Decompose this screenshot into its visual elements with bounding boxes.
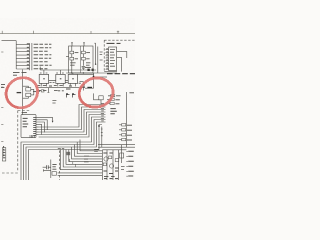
small rect comp c xyxy=(115,159,119,162)
block inner vertical b xyxy=(112,150,114,180)
heavy dashed bus bottom-right xyxy=(107,73,135,75)
cross wires y144 xyxy=(98,144,135,146)
RE label xyxy=(127,134,132,136)
RA body xyxy=(110,98,114,100)
bus wire 4 xyxy=(39,112,106,135)
module A wire chain right xyxy=(82,46,84,66)
capacitor C12 wires xyxy=(43,166,51,168)
resistor R4 xyxy=(82,57,86,60)
module A wire chain left xyxy=(71,46,73,73)
gate U3 symbol mark xyxy=(60,78,62,80)
stub below bottom wire xyxy=(47,88,49,93)
junction dot x95.5 bottom xyxy=(95,63,96,64)
gate U2 input stub xyxy=(43,70,45,74)
annotation red circle right xyxy=(79,78,113,107)
scan noise overlay xyxy=(0,0,1,1)
U6 pin wire row2 xyxy=(36,120,47,130)
thin wire y77 xyxy=(94,76,108,78)
bus wire 8 xyxy=(26,122,106,180)
capacitor C29 plates xyxy=(82,85,85,87)
R1 label xyxy=(75,52,79,54)
wire U6 top to crystal xyxy=(22,109,24,115)
IC U6 box xyxy=(21,115,36,138)
enclosure bottom wire xyxy=(104,71,117,73)
wire vertical x101.8 lower xyxy=(101,127,103,148)
U5 right wire upper xyxy=(117,52,127,58)
block inner vertical c xyxy=(121,145,123,163)
U6 right pin ticks xyxy=(33,118,36,136)
wire top feed to bus xyxy=(2,40,17,42)
U5 right wire lower xyxy=(117,58,122,72)
RB body xyxy=(110,102,114,104)
wire U2-U3 link xyxy=(49,80,56,82)
dashed enclosure bottom-left bottom xyxy=(2,172,18,174)
J1 pin number marks xyxy=(27,44,29,68)
bottom-right block outline xyxy=(102,150,126,180)
RE body xyxy=(122,134,126,136)
block mid text e xyxy=(121,167,125,170)
J1 net label row5 xyxy=(34,57,52,59)
U6 pin wire row3 xyxy=(36,122,44,132)
relay K1 box xyxy=(66,152,70,155)
bottom-left small connector J3 xyxy=(2,148,5,161)
gate U3 labels below xyxy=(54,86,63,91)
gate row bottom wire y87.5 xyxy=(36,87,85,89)
dashed enclosure bottom-left top xyxy=(18,110,30,112)
net flag box xyxy=(41,90,44,92)
block inner vertical a xyxy=(106,150,108,180)
gate U4 output stubs xyxy=(70,83,75,86)
wire from box down xyxy=(100,100,102,105)
fan bottom wire 10 xyxy=(58,175,102,177)
J1 net label row6 xyxy=(34,61,48,63)
right label ticks xyxy=(126,152,127,177)
U6 pin wire row8 xyxy=(36,134,39,136)
crystal link wires xyxy=(23,86,34,98)
border tick x118 xyxy=(117,31,119,34)
J3 pin rows xyxy=(3,150,5,158)
junction dot TP a xyxy=(87,69,89,71)
U6 internal text rows xyxy=(23,118,29,126)
tick marks on x101.8 xyxy=(101,129,103,136)
J1 net label row2 xyxy=(34,47,52,49)
hook dots xyxy=(66,93,74,95)
bus wire 1 xyxy=(39,105,106,128)
gate U2 labels below xyxy=(37,86,46,91)
U6 pin wire row6 xyxy=(36,129,39,131)
small junction ticks on fan xyxy=(70,159,76,167)
V2 fan wire 2 xyxy=(77,142,102,154)
small box node C xyxy=(99,96,103,100)
dashed enclosure top-right top edge xyxy=(104,39,135,41)
text below bottom wire xyxy=(52,101,56,103)
RB label xyxy=(115,103,119,105)
label right of crystal xyxy=(33,91,36,93)
R4 label xyxy=(86,58,89,60)
resistor row RF xyxy=(119,139,122,141)
wire gate feed riser xyxy=(39,67,41,71)
resistor R1 xyxy=(70,51,74,54)
gate U4 box xyxy=(68,74,77,83)
sheet border top line xyxy=(0,33,135,35)
module A inner divider xyxy=(80,46,82,73)
label above TP xyxy=(85,66,91,68)
border tick x91 xyxy=(90,31,92,34)
wire U3-U4 link xyxy=(65,80,68,82)
small rect comp b xyxy=(109,156,112,159)
vertical text strip left margin xyxy=(3,146,5,156)
ground symbol in module A xyxy=(82,67,86,70)
J1 net label row4 xyxy=(34,54,52,56)
V2 fan wire 8 xyxy=(60,150,102,170)
label C30 xyxy=(87,87,92,89)
junction dot node B xyxy=(93,76,95,78)
U6 pin wire row1 xyxy=(36,118,53,121)
resistor row RC xyxy=(119,124,122,126)
block inner vertical d xyxy=(118,150,120,180)
block bottom dark marks xyxy=(104,178,118,180)
dashed enclosure bottom-center left edge xyxy=(59,151,61,181)
component labels mid fan xyxy=(84,156,89,162)
wire C30 to node xyxy=(85,87,94,89)
RA label xyxy=(115,99,119,101)
wire vertical through left circle xyxy=(22,70,24,109)
border tick left y124 xyxy=(1,124,3,126)
enclosure title text xyxy=(107,42,121,44)
small rect comp d xyxy=(120,153,124,158)
wire vertical x95.5 xyxy=(94,43,95,64)
dark marks above fan right xyxy=(94,149,99,151)
wire vertical bus x16 xyxy=(15,41,17,69)
module A top stub 1 xyxy=(71,43,73,46)
crystal X1 label 12M xyxy=(17,92,22,94)
text right of module A xyxy=(100,52,103,60)
connector J1 body xyxy=(30,43,32,70)
border tick x2 xyxy=(1,31,3,34)
cross wires y147 xyxy=(98,146,135,148)
wire gate feed horizontal y70 xyxy=(40,69,96,71)
resistor R3 xyxy=(82,51,86,54)
border tick left y141 xyxy=(1,141,3,143)
U5 left pin stubs xyxy=(106,50,109,70)
wire lower-right inside circle xyxy=(94,93,101,99)
RD label xyxy=(127,129,132,131)
bus wire 2 xyxy=(39,107,106,130)
block small texts xyxy=(103,153,118,176)
resistor row RA0 xyxy=(108,95,121,97)
long vertical x126.5 xyxy=(126,92,128,147)
gate U4 symbol mark xyxy=(72,78,74,80)
resistor row RD xyxy=(119,129,122,131)
net flag marks row y91 xyxy=(38,90,64,92)
gate U3 input stub xyxy=(60,70,62,74)
gate U3 output stubs xyxy=(58,83,63,86)
RD body xyxy=(122,129,126,131)
bus wire 3 xyxy=(39,110,106,133)
junction dot on rail 1 xyxy=(71,72,72,73)
fan bottom wire 9 xyxy=(58,172,102,174)
module A text block left xyxy=(70,63,75,65)
gate U3 pin numbers top xyxy=(56,72,64,74)
U6 bottom pin ticks xyxy=(30,135,34,138)
RF label xyxy=(127,139,132,141)
gate U2 output stubs xyxy=(41,83,46,86)
IC U5 box xyxy=(109,47,117,71)
wire vertical into right circle xyxy=(93,73,95,88)
border tick left y107 xyxy=(1,107,3,109)
module A bottom rail extended xyxy=(66,72,117,74)
gate U2 symbol mark xyxy=(43,78,45,80)
resistor row RE xyxy=(119,134,122,136)
RC label xyxy=(127,124,132,126)
transistor Q2 xyxy=(110,164,114,168)
R2 label xyxy=(75,58,78,60)
junction dot bus right xyxy=(98,125,100,127)
module A top stub 2 xyxy=(83,43,85,46)
gate U4 input stub xyxy=(72,73,74,74)
bus wire 6 xyxy=(21,117,106,180)
wire vertical x50.8 bottom xyxy=(50,160,52,179)
R3 label xyxy=(86,52,90,54)
dashed enclosure left edge xyxy=(103,40,105,72)
junction dot TP b xyxy=(92,69,94,71)
C12 label xyxy=(52,164,56,169)
resistor row RB xyxy=(107,102,110,104)
RC body xyxy=(122,124,126,126)
annotation red circle left xyxy=(6,78,38,108)
V2 fan wire 1 xyxy=(80,140,102,151)
sheet arrow hook a xyxy=(67,95,70,98)
dashed enclosure bottom-left vertical xyxy=(17,111,19,172)
fan left labels xyxy=(58,148,64,150)
staircase net labels xyxy=(101,103,104,121)
sheet arrow hook b xyxy=(73,95,76,98)
U6 pin wire row7 xyxy=(36,131,39,133)
module A box xyxy=(69,46,93,73)
U6 pin wire row5 xyxy=(36,126,39,128)
resistor row RA xyxy=(107,98,110,100)
transistor Q1 xyxy=(104,157,108,161)
V2 fan wire 3 xyxy=(74,145,102,157)
crystal X1 body top xyxy=(26,88,31,91)
U6 title label xyxy=(22,112,27,114)
J1 net label row1 xyxy=(34,43,52,45)
crystal X1 body bottom xyxy=(26,93,31,96)
wire C29 top link xyxy=(80,81,84,83)
border tick left y52 xyxy=(1,51,3,53)
gate U3 box xyxy=(56,74,65,83)
text above left circle xyxy=(13,73,27,76)
small rect comp a xyxy=(103,163,106,166)
RA0 body xyxy=(111,95,115,97)
C29 label xyxy=(79,82,81,84)
J1 net label row3 xyxy=(34,50,48,52)
bus wire 9 xyxy=(29,125,103,181)
capacitor C12 plates xyxy=(46,165,48,169)
gate U2 box xyxy=(39,74,48,83)
arrow junction mark xyxy=(52,121,54,123)
V2 fan wire 4 xyxy=(72,147,102,159)
wire y74.5 left of node xyxy=(78,74,94,76)
text left edge small xyxy=(1,85,5,88)
net name block center-right xyxy=(110,109,116,114)
V2 fan wire 7 xyxy=(63,150,102,168)
J1 net label row8 xyxy=(34,68,48,70)
U6 pin wire row4 xyxy=(36,124,42,134)
V2 fan wire 6 xyxy=(66,150,102,165)
right top text xyxy=(129,92,134,94)
C12 lower wire xyxy=(44,169,51,171)
bus wire 7 xyxy=(24,120,106,181)
labels on bottom wire xyxy=(49,86,72,89)
capacitor C29 stubs xyxy=(82,82,84,91)
wire vertical x97.8 xyxy=(97,47,99,74)
gate U2 pin numbers top xyxy=(40,72,48,74)
resistor R2 xyxy=(70,57,74,60)
bus wire 5 xyxy=(39,115,106,138)
right label column rows xyxy=(128,151,134,176)
small box under C12 xyxy=(52,172,56,176)
U5 pin numbers xyxy=(106,49,107,69)
junction dot on rail 2 xyxy=(83,72,84,73)
J1 pin wires rows xyxy=(16,45,29,69)
module A left stub xyxy=(66,56,69,58)
U5 internal text xyxy=(110,49,115,66)
border tick x33 xyxy=(33,31,35,34)
RF body xyxy=(122,138,126,140)
V2 fan wire 5 xyxy=(69,150,102,162)
J1 net label row7 xyxy=(34,64,52,66)
module A text block right xyxy=(86,63,90,65)
border tick left y87 xyxy=(1,86,3,88)
